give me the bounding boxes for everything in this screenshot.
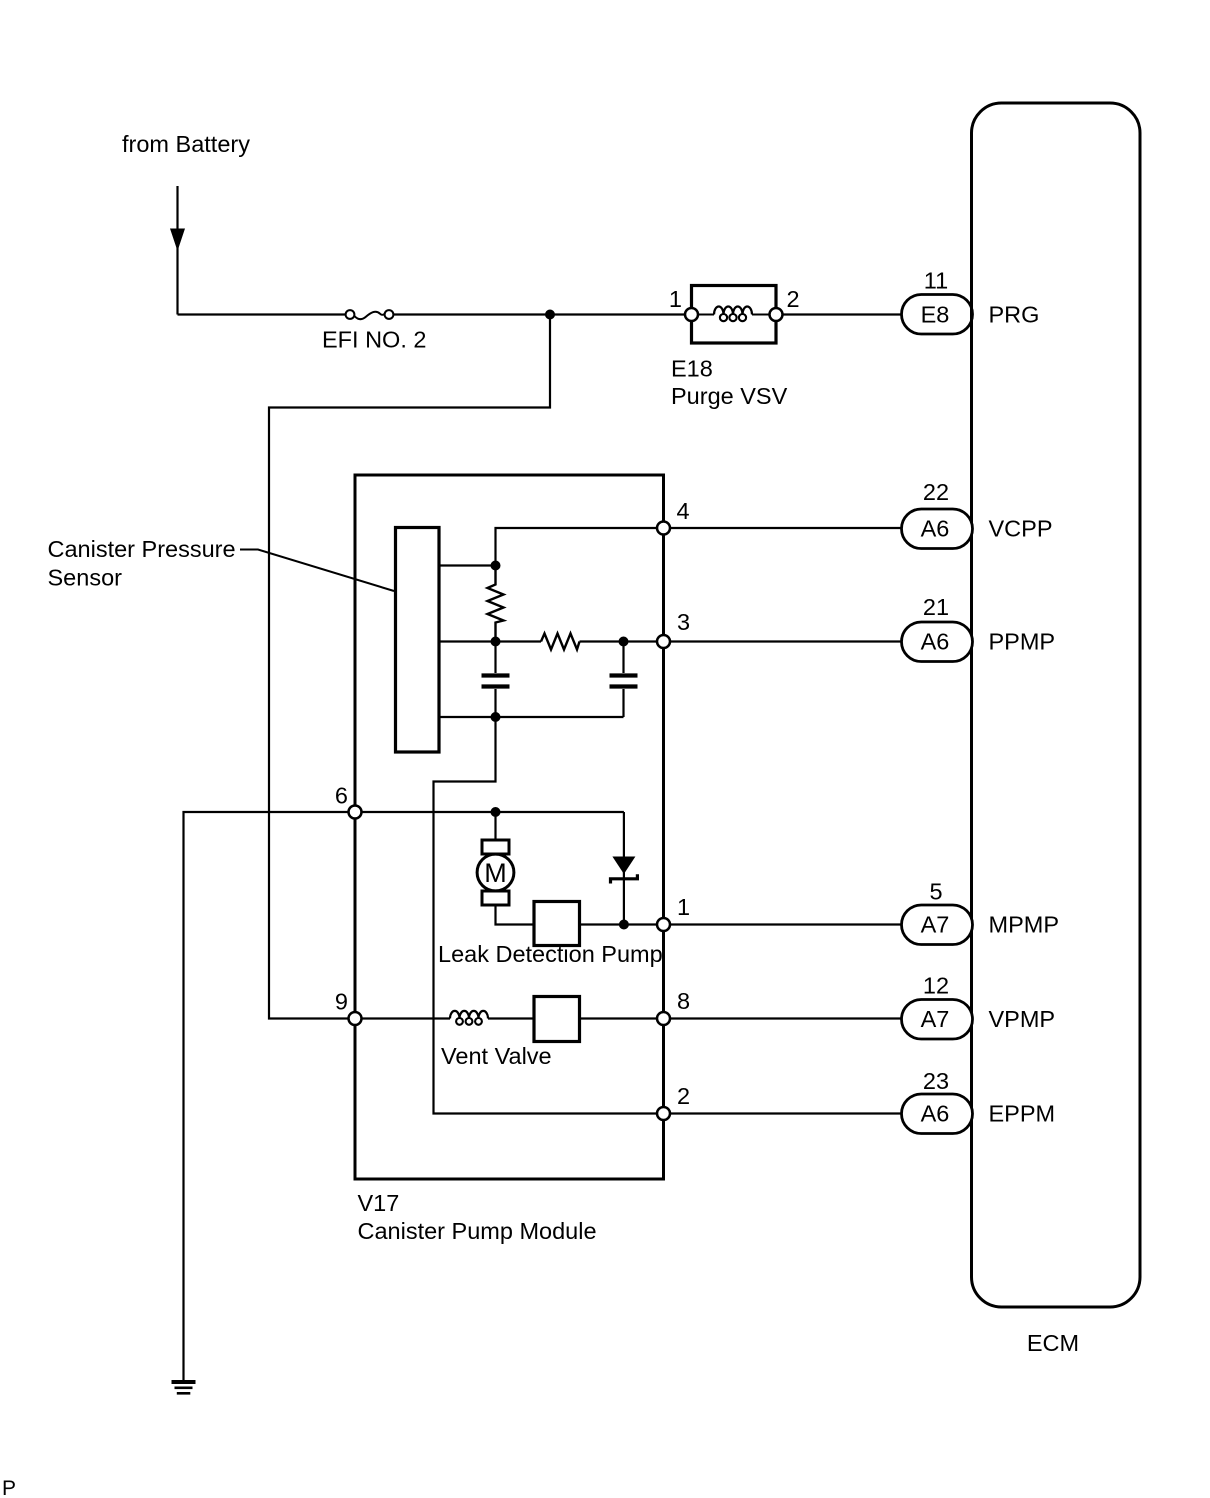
svg-text:MPMP: MPMP [989,912,1060,938]
wire battery to fuse [178,313,346,315]
ECM box [972,103,1141,1307]
motor M leak detection pump [477,812,534,925]
svg-text:VPMP: VPMP [989,1006,1056,1032]
svg-text:9: 9 [335,989,348,1015]
wire sensor mid stub [439,640,541,642]
leak detection pump box [534,902,580,946]
pin 4 circle [657,522,670,535]
svg-text:21: 21 [923,594,949,620]
junction dot main feed [545,310,555,320]
svg-text:E8: E8 [921,302,950,328]
junction dot sensor mid [491,637,501,647]
resistor R2 horizontal [541,634,580,650]
wire pin 9 to vent valve coil [355,1017,450,1019]
wire coil to vent valve box [488,1017,534,1019]
svg-text:A6: A6 [921,516,950,542]
svg-text:3: 3 [677,609,690,635]
svg-text:V17: V17 [358,1190,400,1216]
connector A6 pin 23 EPPM [902,1094,973,1134]
fuse EFI NO. 2 [346,310,394,319]
wire VSV to connector E8 [783,313,902,315]
wire LDP to connector MPMP [580,923,902,925]
connector A7 pin 5 MPMP [902,905,973,945]
svg-text:ECM: ECM [1027,1330,1079,1356]
svg-text:8: 8 [677,988,690,1014]
wire R2 to connector PPMP [580,640,902,642]
ground [172,1380,196,1395]
wire sensor bottom rail [439,716,624,718]
svg-text:A7: A7 [921,1006,950,1032]
connector A6 pin 22 VCPP [902,509,973,549]
svg-text:6: 6 [335,783,348,809]
pin 2 circle [657,1107,670,1120]
diode D1 zener [611,812,638,925]
junction dot motor branch [491,807,501,817]
svg-text:Canister Pressure: Canister Pressure [48,536,236,562]
svg-text:M: M [484,858,507,888]
junction dot diode bottom [619,920,629,930]
pin 1 circle [657,918,670,931]
junction dot sensor top [491,561,501,571]
wire branch junction to pin 9 [269,315,550,1019]
pin 8 circle [657,1012,670,1025]
pin 6 circle [349,806,362,819]
pin 9 circle [349,1012,362,1025]
arrow battery feed [170,229,185,252]
capacitor C2 [610,642,638,718]
svg-text:Purge VSV: Purge VSV [671,383,788,409]
svg-text:from Battery: from Battery [122,131,250,157]
svg-text:PPMP: PPMP [989,629,1056,655]
svg-text:E18: E18 [671,356,713,382]
sensor box canister pressure sensor [396,528,440,753]
svg-text:Canister Pump Module: Canister Pump Module [358,1218,597,1244]
svg-text:2: 2 [677,1083,690,1109]
svg-text:22: 22 [923,479,949,505]
connector E8 [902,295,973,335]
svg-text:P: P [2,1477,16,1498]
svg-text:Vent Valve: Vent Valve [441,1043,552,1069]
module V17 box [355,475,664,1179]
svg-text:PRG: PRG [989,302,1040,328]
wire pin 4 to sensor [439,528,902,566]
capacitor C1 [482,642,510,718]
wire fuse to junction [393,313,691,315]
resistor R1 vertical [488,566,504,642]
svg-text:VCPP: VCPP [989,516,1053,542]
svg-text:A7: A7 [921,912,950,938]
svg-text:1: 1 [669,286,682,312]
wire pin 6 rail [184,812,624,1381]
svg-text:Sensor: Sensor [48,565,123,591]
svg-text:EFI NO. 2: EFI NO. 2 [322,327,426,353]
pin 3 circle [657,635,670,648]
svg-text:5: 5 [929,879,942,905]
wire sensor common to EPPM [434,717,902,1114]
wire vent valve to connector VPMP [580,1017,902,1019]
svg-text:23: 23 [923,1068,949,1094]
wire battery feed vertical [176,186,178,315]
connector A7 pin 12 VPMP [902,1000,973,1040]
svg-text:1: 1 [677,894,690,920]
svg-text:A6: A6 [921,629,950,655]
junction dot C2 top [619,637,629,647]
svg-text:12: 12 [923,973,949,999]
connector A6 pin 21 PPMP [902,622,973,662]
svg-text:Leak Detection Pump: Leak Detection Pump [438,941,663,967]
svg-text:4: 4 [677,498,690,524]
svg-text:EPPM: EPPM [989,1101,1056,1127]
inductor vent valve coil [450,1011,488,1025]
solenoid E18 Purge VSV [685,286,783,344]
vent valve box [534,997,580,1042]
leader line sensor label [240,550,394,592]
junction dot bottom rail [491,712,501,722]
svg-text:11: 11 [924,268,948,294]
svg-text:A6: A6 [921,1101,950,1127]
svg-text:2: 2 [787,286,800,312]
